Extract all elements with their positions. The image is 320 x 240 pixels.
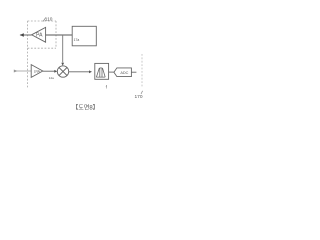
leader 110 xyxy=(43,18,46,22)
wire filter to ADC xyxy=(109,71,114,73)
svg-text:110: 110 xyxy=(45,16,53,22)
arrowhead into filter xyxy=(89,70,92,73)
dashed boundary right xyxy=(141,54,143,88)
wire LNA to mixer xyxy=(43,70,55,72)
wire ADC out xyxy=(131,71,136,73)
svg-text:PA: PA xyxy=(36,33,43,39)
dashed box 110 xyxy=(28,21,57,48)
svg-text:【도면8】: 【도면8】 xyxy=(72,103,98,111)
dashed boundary left xyxy=(27,21,29,88)
wire PA to box xyxy=(46,34,73,36)
wire junction down to mixer xyxy=(62,35,64,63)
wire mixer to filter xyxy=(69,71,90,73)
svg-text:ADC: ADC xyxy=(120,71,128,75)
ADC tag xyxy=(114,68,131,77)
wire TX xyxy=(20,34,32,36)
op-amp PA xyxy=(32,27,46,42)
filter symbol xyxy=(96,68,105,77)
mixer xyxy=(57,66,68,77)
svg-text:LNA: LNA xyxy=(34,70,41,74)
svg-text:170: 170 xyxy=(135,94,143,100)
box 17a xyxy=(72,26,96,46)
op-amp LNA xyxy=(31,65,43,78)
arrowhead into mixer top xyxy=(61,63,64,66)
wire RX xyxy=(14,70,31,72)
arrowhead RX input xyxy=(14,70,18,73)
svg-text:12a: 12a xyxy=(49,76,54,80)
leader 170 xyxy=(141,91,143,94)
arrowhead into mixer left xyxy=(54,70,57,73)
arrowhead TX output xyxy=(20,33,24,36)
svg-text:17a: 17a xyxy=(74,38,80,42)
filter box xyxy=(95,63,109,79)
